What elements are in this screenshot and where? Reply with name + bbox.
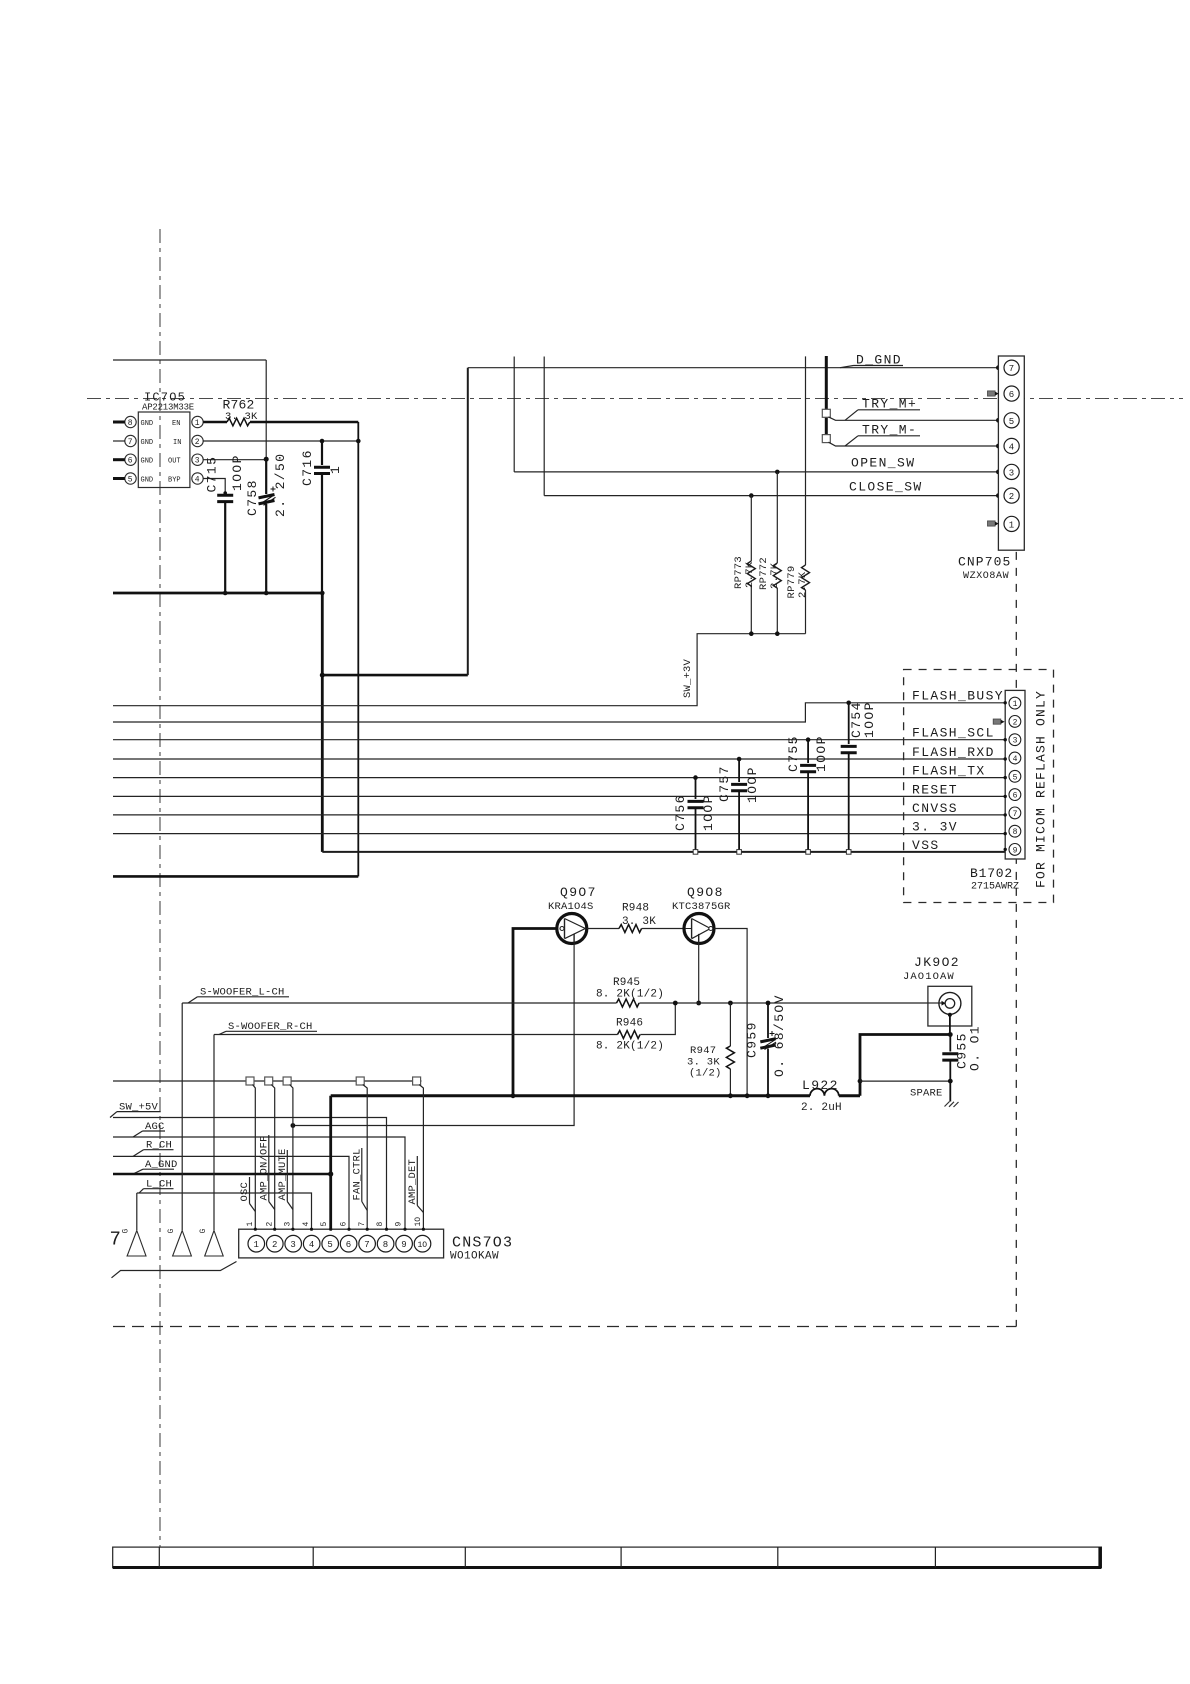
- CNS703 pin 5: [322, 1235, 339, 1252]
- wire: ground bus thick: [331, 1094, 810, 1097]
- svg-text:2. 2/50: 2. 2/50: [273, 453, 288, 517]
- terminal square CNS pin3: [283, 1077, 291, 1085]
- svg-text:CNVSS: CNVSS: [912, 801, 958, 816]
- wire: D_GND vertical riser: [467, 368, 469, 675]
- node: sleeve junction: [948, 1032, 953, 1037]
- CNP705 pin 1: [1004, 516, 1019, 531]
- node: pin8 wire end: [1004, 832, 1007, 835]
- wire stub pin6: [113, 458, 125, 461]
- node: D_GND at connector: [996, 365, 1001, 370]
- svg-text:OPEN_SW: OPEN_SW: [851, 456, 915, 471]
- arrow triangle G (L_CH): [127, 1231, 146, 1257]
- svg-text:8: 8: [376, 1222, 385, 1227]
- node: Q907 feed at bus: [511, 1093, 516, 1098]
- B1702 pin 8: [1009, 825, 1021, 837]
- wire: Q908 base down to R945 line: [698, 943, 700, 1003]
- CNS703 pin 7: [359, 1235, 376, 1252]
- wire: IC section ground bottom line: [113, 592, 322, 595]
- svg-text:C758: C758: [245, 479, 260, 516]
- svg-text:KTC3875GR: KTC3875GR: [672, 901, 731, 913]
- svg-text:8: 8: [383, 1240, 388, 1250]
- node: Q908 base at R945 line: [696, 1001, 701, 1006]
- node: pin entries on CNS703: [254, 1228, 425, 1231]
- wire: ground vertical down to VSS: [321, 593, 324, 852]
- svg-text:7: 7: [128, 438, 133, 447]
- wire: TRY_M thick vertical from top: [825, 356, 828, 436]
- capacitor C757: [731, 757, 747, 854]
- svg-text:6: 6: [128, 457, 133, 466]
- node: C758 at ground line: [264, 591, 269, 596]
- node: TRY_M+ at connector: [996, 418, 1001, 423]
- wire: IN pin2 line to C716 and EN vertical: [203, 440, 358, 442]
- wire: OPEN_SW line to pin 3: [514, 471, 998, 473]
- node: pin3 wire end: [1004, 738, 1007, 741]
- wire: EN net bottom horizontal to left edge: [113, 875, 358, 878]
- terminal square TRY_M+: [822, 409, 830, 417]
- wire: S-WOOFER_L-CH / R945 line: [182, 1002, 616, 1004]
- B1702 pin 3: [1009, 734, 1021, 746]
- svg-text:GND: GND: [141, 458, 154, 466]
- svg-text:FLASH_SCL: FLASH_SCL: [912, 726, 995, 741]
- svg-text:C755: C755: [786, 735, 801, 772]
- CNP705 connector body: [998, 356, 1024, 550]
- svg-text:7: 7: [364, 1240, 369, 1250]
- wire: A_GND thick to CNS pin5 riser: [113, 1173, 331, 1176]
- wire: S-WOOFER_R-CH / R946 line: [214, 1034, 618, 1036]
- svg-text:JAO1OAW: JAO1OAW: [903, 971, 955, 983]
- CNS703 pin 9: [396, 1235, 413, 1252]
- wire: TRY_M- to pin 4: [829, 442, 999, 446]
- wire: RP common bus to SW_+3V: [113, 634, 806, 706]
- wire: FLASH_SCL line: [113, 739, 1005, 741]
- wire: S-WOOFER_R-CH down to arrow G: [213, 1035, 215, 1231]
- svg-text:SPARE: SPARE: [910, 1088, 943, 1100]
- svg-text:2.7K: 2.7K: [744, 561, 756, 588]
- arrow triangle G (S-WOOFER_L-CH): [173, 1231, 192, 1257]
- resistor R946: [618, 1031, 641, 1039]
- node: A_GND at pin5 riser: [328, 1171, 333, 1176]
- wire: Q908 collector right and down to bus: [714, 929, 747, 1096]
- svg-text:2.7K: 2.7K: [797, 571, 809, 598]
- wire: VSS line: [322, 851, 1005, 853]
- node: chassis branch on riser: [858, 1079, 863, 1084]
- svg-text:6: 6: [340, 1222, 349, 1227]
- svg-text:4: 4: [195, 476, 200, 485]
- svg-text:3: 3: [284, 1222, 293, 1227]
- net label S-WOOFER_R-CH: [219, 1021, 317, 1035]
- capacitor C755: [800, 737, 816, 854]
- wire: OUT pin3 to C758 column: [203, 459, 266, 461]
- terminal square CNS pin10: [413, 1077, 421, 1085]
- CNS703 pin 1: [248, 1235, 265, 1252]
- wire: S-WOOFER_L-CH down to arrow G: [181, 1003, 183, 1230]
- CNS703 pin 6: [340, 1235, 357, 1252]
- RD mark at B1702 pin 2: [993, 719, 1004, 724]
- terminal square CNS pin2: [265, 1077, 273, 1085]
- wire: SW_+5V to CNS pin8: [113, 1118, 387, 1230]
- wire: Q907 base feed thick L from ground bus: [513, 929, 557, 1096]
- svg-text:5: 5: [128, 476, 133, 485]
- wire: EN pin1 to R762 to corner, thick: [203, 421, 227, 424]
- svg-text:CLOSE_SW: CLOSE_SW: [849, 480, 923, 495]
- capacitor C955: [942, 1035, 958, 1102]
- node: TRY_M- at connector: [996, 444, 1001, 449]
- signal OSC rotated: [239, 1177, 255, 1212]
- svg-text:7: 7: [110, 1229, 121, 1251]
- svg-text:1: 1: [195, 419, 200, 428]
- CNS703 pin 4: [303, 1235, 320, 1252]
- resistor R947: [726, 1001, 734, 1099]
- transistor Q907: [557, 914, 587, 944]
- svg-text:2: 2: [1013, 718, 1018, 727]
- wire: BYP pin4 to C715: [203, 479, 225, 494]
- resistor R945: [617, 999, 640, 1007]
- wire: square to pin10 vertical: [419, 1085, 423, 1230]
- svg-text:C756: C756: [673, 794, 688, 831]
- CNP705 pin 6: [1004, 386, 1019, 401]
- wire: R946 to riser joining R945 line: [640, 1003, 675, 1035]
- node: ground corner at C716: [320, 591, 325, 596]
- svg-text:3: 3: [195, 457, 200, 466]
- svg-text:R946: R946: [616, 1018, 643, 1030]
- wire: OPEN_SW vertical riser: [513, 357, 515, 472]
- svg-text:1OOP: 1OOP: [701, 794, 716, 831]
- wire: CLOSE_SW vertical riser: [543, 357, 545, 496]
- svg-text:GND: GND: [141, 439, 154, 447]
- wire: square to pin1 vertical: [253, 1085, 256, 1230]
- capacitor C758 (electrolytic): [259, 459, 276, 593]
- transistor Q908: [684, 914, 714, 944]
- page border dashed vertical: [1015, 552, 1017, 1327]
- svg-text:B1702: B1702: [970, 866, 1013, 881]
- svg-text:4: 4: [302, 1222, 311, 1227]
- wire: terminal row line: [113, 1080, 422, 1082]
- wire: RESET line: [113, 795, 1005, 797]
- svg-text:RESET: RESET: [912, 782, 958, 797]
- svg-text:5: 5: [1009, 417, 1014, 427]
- svg-text:C716: C716: [300, 449, 315, 486]
- wire: 3.3V line: [113, 833, 1005, 835]
- wire: square to pin3 vertical: [290, 1085, 293, 1230]
- wire: R_CH to CNS pin6: [113, 1156, 349, 1229]
- svg-text:2.7K: 2.7K: [769, 562, 781, 589]
- resistor R948: [587, 925, 684, 933]
- svg-text:6: 6: [1013, 792, 1018, 801]
- B1702 pin 7: [1009, 807, 1021, 819]
- wire: L_CH down to arrow G: [136, 1193, 138, 1230]
- node: C716 top junction: [320, 439, 325, 444]
- wire: TRY_M+ to pin 5: [829, 417, 999, 420]
- svg-text:R948: R948: [622, 903, 649, 915]
- RD mark at CNP705 pin 1: [988, 521, 999, 526]
- inductor L922: [810, 1089, 860, 1096]
- CNS703 pin 2: [267, 1235, 284, 1252]
- svg-text:KRA1O4S: KRA1O4S: [548, 901, 594, 913]
- wire: D_GND line to CNP705 pin7: [468, 367, 999, 369]
- B1702 pin 2: [1009, 716, 1021, 728]
- wire: FLASH_TX line: [113, 777, 1005, 779]
- resistor pack RP772: [773, 470, 781, 634]
- svg-text:IN: IN: [173, 439, 181, 447]
- svg-text:1OOP: 1OOP: [814, 735, 829, 772]
- capacitor C754: [841, 701, 857, 855]
- wire: EN/IN net vertical down: [357, 422, 359, 876]
- wire: square to pin7 vertical: [363, 1085, 368, 1230]
- svg-text:1O: 1O: [418, 1241, 428, 1250]
- svg-text:CNS7O3: CNS7O3: [452, 1235, 513, 1252]
- net label A_GND: [133, 1159, 178, 1174]
- svg-text:4: 4: [1009, 443, 1014, 453]
- CNS703 pin 10: [414, 1235, 431, 1252]
- svg-text:SW_+3V: SW_+3V: [682, 658, 694, 698]
- net label AGC: [133, 1121, 165, 1137]
- wire: Q907 emitter down and left to CNS pin3: [293, 943, 574, 1126]
- svg-text:CNP705: CNP705: [958, 555, 1011, 570]
- wire stub pin8: [113, 421, 125, 424]
- svg-text:L922: L922: [802, 1078, 839, 1093]
- node: chassis branch at C955: [948, 1079, 953, 1084]
- resistor R762 zigzag: [227, 418, 250, 426]
- svg-text:1OOP: 1OOP: [745, 766, 760, 803]
- svg-text:G: G: [122, 1229, 131, 1234]
- svg-text:(1/2): (1/2): [689, 1068, 722, 1080]
- svg-text:7: 7: [358, 1222, 367, 1227]
- capacitor C715: [217, 491, 233, 593]
- centerline vertical dash-dot: [159, 229, 161, 1547]
- resistor pack RP773: [747, 493, 755, 633]
- CNS703 pin 8: [377, 1235, 394, 1252]
- svg-text:FLASH_TX: FLASH_TX: [912, 764, 986, 779]
- svg-text:8. 2K(1/2): 8. 2K(1/2): [596, 1041, 664, 1053]
- svg-text:2: 2: [272, 1240, 277, 1250]
- svg-text:8: 8: [128, 419, 133, 428]
- svg-text:2715AWRZ: 2715AWRZ: [971, 882, 1019, 893]
- svg-text:G: G: [199, 1229, 208, 1234]
- svg-text:R947: R947: [690, 1045, 716, 1057]
- RD mark at CNP705 pin 6: [988, 391, 999, 396]
- wire stub pin5: [113, 477, 125, 480]
- signal FAN_CTRL rotated: [352, 1148, 368, 1211]
- svg-text:7: 7: [1013, 810, 1018, 819]
- svg-text:WO1OKAW: WO1OKAW: [450, 1251, 499, 1263]
- wire: L_CH line to CNS pin4: [137, 1193, 312, 1229]
- net label L_CH: [139, 1179, 174, 1194]
- IC705 pin 2 circle: [192, 435, 203, 446]
- CNS703 pin 3: [285, 1235, 302, 1252]
- node: R946 riser at R945 line: [673, 1001, 678, 1006]
- wire: chassis branch horizontal: [860, 1080, 950, 1082]
- svg-text:1: 1: [328, 465, 343, 474]
- wire: CNS pin5 thick riser from ground bus: [329, 1096, 332, 1229]
- svg-text:5: 5: [320, 1222, 329, 1227]
- B1702 connector body: [1005, 690, 1025, 859]
- CNP705 pin 3: [1004, 464, 1019, 479]
- svg-text:C715: C715: [205, 456, 220, 493]
- wire: bus riser to jack sleeve: [860, 1035, 950, 1096]
- net label D_GND: [840, 353, 903, 368]
- wire: R945 line to jack: [639, 1002, 941, 1004]
- IC705 pin 4 circle: [192, 473, 203, 484]
- wire: bent stub at bottom left: [112, 1262, 237, 1278]
- B1702 pin 9: [1009, 844, 1021, 856]
- signal AMP_ON/OFF rotated: [259, 1135, 275, 1210]
- svg-text:4: 4: [1013, 755, 1018, 764]
- svg-text:O. O1: O. O1: [968, 1025, 983, 1071]
- wire: CNVSS line: [113, 814, 1005, 816]
- svg-text:3: 3: [1013, 737, 1018, 746]
- capacitor C716: [314, 441, 330, 593]
- svg-text:9: 9: [1013, 846, 1018, 855]
- node: OUT / C758 junction: [264, 457, 269, 462]
- svg-text:1: 1: [1009, 520, 1014, 530]
- terminal square CNS pin1: [246, 1077, 254, 1085]
- arrow triangle G (S-WOOFER_R-CH): [205, 1231, 224, 1257]
- svg-text:R945: R945: [613, 977, 640, 989]
- svg-text:Q9O7: Q9O7: [560, 885, 597, 900]
- terminal square TRY_M-: [822, 435, 830, 443]
- svg-text:C959: C959: [745, 1021, 760, 1058]
- svg-text:G: G: [167, 1229, 176, 1234]
- svg-text:FOR MICOM REFLASH ONLY: FOR MICOM REFLASH ONLY: [1034, 690, 1049, 888]
- node: pin1 wire end: [1004, 701, 1007, 704]
- wire: CLOSE_SW line to pin 2: [544, 495, 998, 497]
- B1702 pin 1: [1009, 697, 1021, 709]
- chassis ground symbol: [945, 1102, 959, 1108]
- IC705 body: [138, 412, 190, 488]
- node: D_GND tap on ground vertical: [320, 673, 325, 678]
- wire: top line from left edge to C758 column: [113, 359, 266, 361]
- IC705 pin 3 circle: [192, 454, 203, 465]
- wire: AGC to CNS pin9: [113, 1137, 405, 1229]
- svg-text:2. 2uH: 2. 2uH: [801, 1102, 842, 1114]
- svg-text:8. 2K(1/2): 8. 2K(1/2): [596, 989, 664, 1001]
- CNP705 pin 7: [1004, 360, 1019, 375]
- svg-text:1: 1: [1013, 700, 1018, 709]
- node: pin6 wire end: [1004, 795, 1007, 798]
- svg-text:2: 2: [1009, 492, 1014, 502]
- node: pin7 wire end: [1004, 813, 1007, 816]
- svg-text:1OOP: 1OOP: [230, 454, 245, 491]
- svg-text:6: 6: [346, 1240, 351, 1250]
- node: OPEN_SW at connector: [996, 470, 1001, 475]
- node: RP773 on bus: [749, 631, 754, 636]
- centerline horizontal dash-dot: [87, 398, 1183, 400]
- svg-text:C757: C757: [717, 765, 732, 802]
- svg-text:4: 4: [309, 1240, 314, 1250]
- svg-text:WZXO8AW: WZXO8AW: [963, 571, 1009, 582]
- IC705 pin 5 circle: [125, 473, 136, 484]
- wire: FLASH_BUSY line with step: [113, 703, 1005, 722]
- node: pin9 wire end: [1004, 848, 1007, 851]
- CNP705 pin 4: [1004, 438, 1019, 453]
- svg-text:1: 1: [246, 1222, 255, 1227]
- svg-text:VSS: VSS: [912, 838, 940, 853]
- net label TRY_M-: [845, 423, 920, 447]
- wire: FLASH_RXD line: [113, 758, 1005, 760]
- node: pin4 wire end: [1004, 757, 1007, 760]
- wire stub pin7: [113, 440, 125, 442]
- svg-text:OUT: OUT: [168, 458, 181, 466]
- node: Q908 collector at bus: [745, 1093, 750, 1098]
- CNP705 pin 2: [1004, 488, 1019, 503]
- svg-text:8: 8: [1013, 828, 1018, 837]
- node: CLOSE_SW at connector: [996, 493, 1001, 498]
- svg-text:FLASH_BUSY: FLASH_BUSY: [912, 689, 1004, 704]
- IC705 pin 1 circle: [192, 416, 203, 427]
- terminal square CNS pin7: [356, 1077, 364, 1085]
- node: C715 at ground line: [223, 591, 228, 596]
- IC705 pin 8 circle: [125, 416, 136, 427]
- svg-text:GND: GND: [141, 420, 154, 428]
- svg-text:1O: 1O: [414, 1217, 423, 1227]
- wire: D_GND horizontal branch: [322, 674, 468, 677]
- net label SW_+5V: [110, 1102, 161, 1118]
- title block table: [113, 1547, 1102, 1567]
- svg-text:Q9O8: Q9O8: [687, 885, 724, 900]
- B1702 pin 4: [1009, 752, 1021, 764]
- node: pin5 wire end: [1004, 776, 1007, 779]
- IC705 pin 6 circle: [125, 454, 136, 465]
- IC705 pin 7 circle: [125, 435, 136, 446]
- svg-text:9: 9: [395, 1222, 404, 1227]
- B1702 pin 6: [1009, 789, 1021, 801]
- svg-text:9: 9: [401, 1240, 406, 1250]
- capacitor C756: [688, 775, 704, 854]
- svg-text:3. 3V: 3. 3V: [912, 820, 958, 835]
- svg-text:3: 3: [1009, 468, 1014, 478]
- net label S-WOOFER_L-CH: [188, 987, 289, 1004]
- svg-text:1OOP: 1OOP: [862, 701, 877, 738]
- svg-text:2: 2: [195, 438, 200, 447]
- svg-text:AP2213M33E: AP2213M33E: [142, 403, 194, 413]
- CNS703 connector body: [239, 1229, 444, 1258]
- svg-text:5: 5: [327, 1240, 332, 1250]
- capacitor C959 (electrolytic): [760, 1001, 776, 1099]
- node: Q907 line at CNS pin3 vertical: [291, 1123, 296, 1128]
- resistor pack RP779: [802, 356, 810, 633]
- node: IN/EN junction: [356, 439, 361, 444]
- svg-text:GND: GND: [141, 477, 154, 485]
- wire: square to pin2 vertical: [271, 1085, 275, 1230]
- signal AMP_DET rotated: [407, 1156, 423, 1213]
- page border dashed bottom: [113, 1326, 1016, 1328]
- svg-text:O. 68/5OV: O. 68/5OV: [772, 994, 787, 1077]
- CNP705 pin 5: [1004, 413, 1019, 428]
- B1702 pin 5: [1009, 770, 1021, 782]
- signal AMP_MUTE rotated: [277, 1148, 293, 1209]
- svg-text:EN: EN: [172, 420, 180, 428]
- svg-text:JK9O2: JK9O2: [914, 955, 960, 970]
- svg-text:FLASH_RXD: FLASH_RXD: [912, 745, 995, 760]
- B1702 dashed enclosure box: [904, 670, 1054, 903]
- svg-text:6: 6: [1009, 390, 1014, 400]
- svg-text:5: 5: [1013, 773, 1018, 782]
- svg-text:1: 1: [254, 1240, 259, 1250]
- svg-text:7: 7: [1009, 364, 1014, 374]
- node: RP772 on bus: [775, 631, 780, 636]
- svg-text:3: 3: [290, 1240, 295, 1250]
- svg-text:2: 2: [266, 1222, 275, 1227]
- svg-text:BYP: BYP: [168, 477, 181, 485]
- net label R_CH: [133, 1140, 174, 1157]
- wire: C758 vertical (top line down to OUT junction): [265, 360, 267, 459]
- jack JK902: [928, 986, 972, 1034]
- net label TRY_M+: [845, 397, 920, 421]
